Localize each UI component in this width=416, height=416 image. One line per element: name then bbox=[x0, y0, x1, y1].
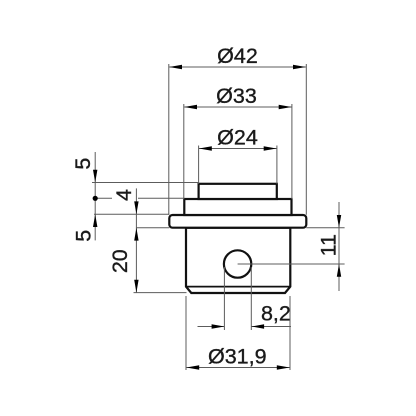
svg-text:5: 5 bbox=[71, 158, 95, 170]
arrow 20 bottom (down, tip at body bottom) bbox=[134, 280, 138, 293]
extension line hole left bbox=[223, 267, 225, 330]
svg-text:Ø24: Ø24 bbox=[217, 126, 258, 150]
flange Ø42 bbox=[169, 215, 306, 228]
chamfer edge line bbox=[186, 286, 290, 288]
svg-text:4: 4 bbox=[112, 189, 136, 201]
extension line Ø33 left bbox=[183, 104, 185, 199]
arrow Ø31.9 right bbox=[277, 365, 290, 369]
svg-text:11: 11 bbox=[317, 234, 341, 256]
arrow 11 top (down, tip at flange bottom) bbox=[337, 215, 341, 228]
part body Ø31.9 with bottom chamfer bbox=[186, 228, 290, 293]
dimension line 5/5 at x=95 bbox=[94, 152, 96, 240]
svg-text:5: 5 bbox=[72, 230, 96, 242]
dimension line 8,2 right tail bbox=[251, 326, 291, 328]
svg-text:Ø42: Ø42 bbox=[217, 44, 258, 68]
arrow Ø42 right bbox=[293, 65, 306, 69]
dimension line Ø33 bbox=[184, 106, 291, 108]
dimension line Ø42 bbox=[169, 66, 306, 68]
cap Ø24 bbox=[199, 184, 277, 199]
extension line Ø31.9 right bbox=[289, 296, 291, 370]
extension line flange top left bbox=[94, 213, 169, 215]
arrow 5 lower (up) bbox=[93, 214, 97, 227]
extension line cap top left bbox=[92, 182, 199, 184]
arrow Ø42 left bbox=[169, 65, 182, 69]
arrow 5 top (down) bbox=[93, 170, 97, 183]
arrow Ø31.9 left bbox=[186, 365, 199, 369]
step Ø33 bbox=[184, 199, 291, 215]
extension line Ø33 right bbox=[291, 104, 293, 199]
arrow 11 bottom (up, tip at hole center) bbox=[337, 264, 341, 277]
hole circle Ø8.2 bbox=[224, 250, 251, 277]
dimension line 8,2 left tail bbox=[198, 326, 225, 328]
arrow Ø24 right bbox=[264, 146, 277, 150]
extension line Ø31.9 left bbox=[185, 296, 187, 370]
extension line body bottom left bbox=[134, 292, 187, 294]
extension line Ø24 right bbox=[276, 146, 278, 184]
dimension line Ø24 bbox=[199, 148, 277, 150]
extension line step top left (with gap for label 4) bbox=[95, 197, 112, 199]
extension line hole right bbox=[250, 267, 252, 330]
arrow Ø33 right bbox=[279, 105, 292, 109]
dimension line 11 at x=339 bbox=[338, 202, 340, 291]
arrow Ø33 left bbox=[184, 105, 197, 109]
arrow Ø24 left bbox=[199, 146, 212, 150]
extension line Ø42 left bbox=[168, 64, 170, 215]
dimension line Ø31.9 bbox=[186, 367, 289, 369]
svg-text:20: 20 bbox=[108, 249, 132, 273]
extension line hole center right bbox=[238, 263, 345, 265]
extension line Ø42 right bbox=[305, 64, 307, 215]
dot terminator bbox=[93, 196, 98, 201]
svg-text:8,2: 8,2 bbox=[261, 302, 291, 326]
arrow 4 bottom (down, tip at flange top) bbox=[134, 201, 138, 214]
arrow 8,2 left (right-pointing) bbox=[212, 324, 225, 328]
svg-text:Ø33: Ø33 bbox=[216, 84, 257, 108]
extension line flange bottom right bbox=[306, 227, 344, 229]
arrow 8,2 right (left-pointing) bbox=[251, 324, 264, 328]
extension line flange bottom left bbox=[136, 227, 169, 229]
svg-text:Ø31,9: Ø31,9 bbox=[208, 345, 267, 369]
extension line Ø24 left bbox=[198, 146, 200, 184]
arrow 20 top (up, tip at flange bottom) bbox=[134, 228, 138, 241]
dimension line 4/20 at x=136.4 bbox=[135, 188, 137, 292]
